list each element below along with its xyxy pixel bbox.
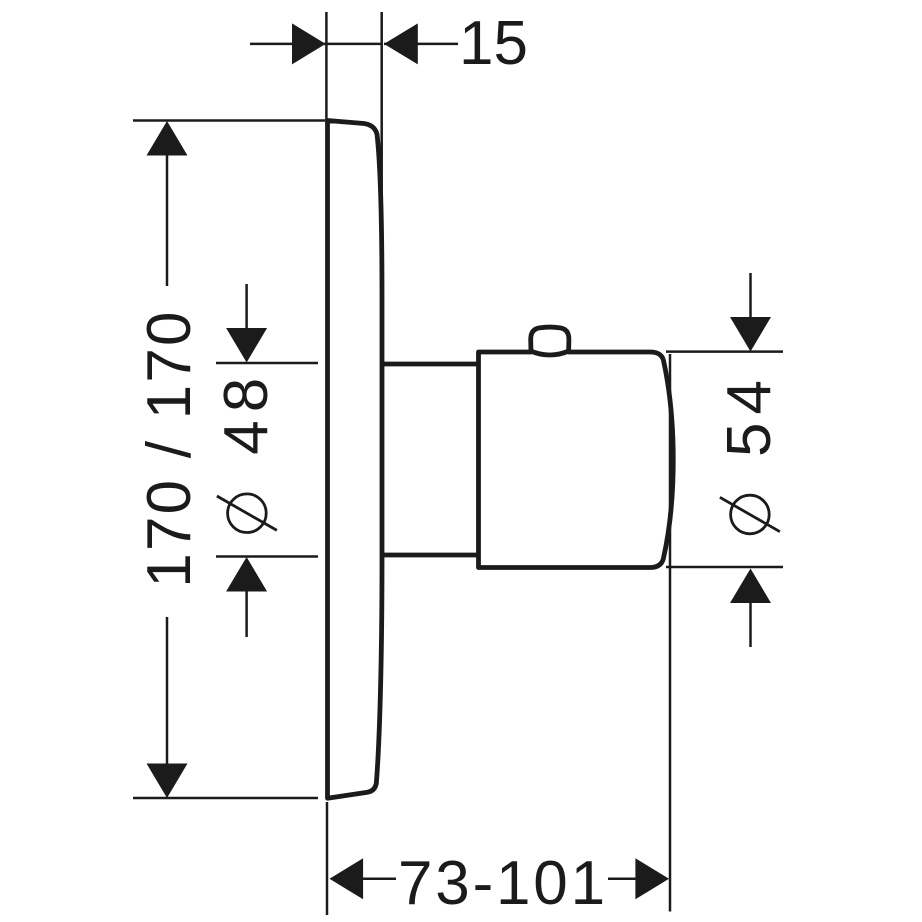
dome base ellipse arc: [530, 351, 571, 356]
line upper: [245, 284, 248, 329]
line lower: [245, 591, 248, 637]
arrow down: [730, 317, 771, 352]
line lower: [166, 617, 169, 764]
line upper: [166, 155, 169, 286]
extension line right: [380, 12, 383, 250]
arrow right: [635, 858, 669, 899]
dim line left part: [250, 43, 382, 46]
arrow up: [226, 557, 267, 592]
tick top: [133, 119, 325, 122]
line upper: [749, 273, 752, 318]
arrow down: [226, 328, 267, 363]
handle knob body: [479, 352, 674, 568]
dim line right part: [608, 878, 636, 881]
extension line left: [325, 12, 328, 120]
svg-text:170 / 170: 170 / 170: [135, 309, 204, 587]
svg-text:15: 15: [459, 9, 528, 78]
svg-text:54: 54: [715, 372, 784, 457]
svg-text:48: 48: [212, 370, 281, 455]
tick top: [216, 362, 318, 365]
tick bottom: [666, 566, 783, 569]
dim line left part: [363, 878, 396, 881]
diameter symbol for 54: [731, 495, 770, 534]
sleeve stem top line: [381, 362, 478, 367]
svg-text:73-101: 73-101: [398, 849, 608, 918]
arrow pointing left at right ext: [384, 23, 418, 64]
tick bottom: [216, 555, 318, 558]
diameter symbol for 48: [228, 494, 267, 533]
tick bottom: [133, 797, 318, 800]
arrow left: [330, 858, 364, 899]
arrow down: [147, 764, 188, 799]
line lower: [749, 603, 752, 648]
arrow up: [147, 121, 188, 156]
arrow up: [730, 569, 771, 604]
arrow pointing right at left ext: [292, 23, 326, 64]
dim line right part: [384, 43, 458, 46]
dome button on handle top: [531, 327, 569, 352]
extension line left: [326, 802, 329, 915]
sleeve stem bottom line: [381, 553, 478, 558]
extension line right: [669, 354, 672, 912]
tick top: [666, 350, 783, 353]
escutcheon wall plate: [328, 121, 383, 799]
